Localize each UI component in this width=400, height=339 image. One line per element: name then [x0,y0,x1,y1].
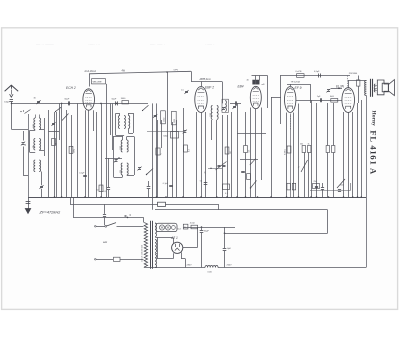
capacitor C n [321,183,324,197]
capacitor C mains [103,204,106,225]
junction [105,157,122,159]
wire [23,131,25,141]
wire [110,103,112,135]
dial lamp 1 [159,225,164,230]
coil L1 pair [34,115,41,130]
coil L4 pair [121,140,128,152]
svg-text:1500: 1500 [210,113,212,117]
svg-text:260V: 260V [227,265,233,267]
trimmer T1 [51,122,55,126]
label L1 [33,124,35,128]
label EL3N [336,84,345,88]
wire [293,113,295,198]
wire [172,122,174,197]
wire [261,108,263,181]
wire [161,120,163,148]
fuse [95,257,144,261]
svg-text:TR 12mA: TR 12mA [291,81,301,84]
junction approx3 [125,213,132,218]
svg-text:Cu-PB: Cu-PB [295,71,302,73]
label ECH 2 [66,86,76,90]
svg-text:250: 250 [314,181,317,183]
svg-text:ZRC6M4: ZRC6M4 [349,73,358,75]
capacitor C J40 [247,80,256,85]
transformer OPT secondary [374,84,377,92]
svg-text:1k: 1k [308,143,310,145]
transformer secondary heat1 [155,240,157,253]
wire [343,112,345,197]
svg-text:0,1μF: 0,1μF [163,183,169,185]
wire [196,112,198,197]
wire [56,112,58,197]
svg-text:··— ·: ··— · [205,42,215,47]
tube EL3N [342,88,355,113]
switch mains [95,223,144,228]
svg-text:110 125 150 220 240: 110 125 150 220 240 [142,245,144,262]
label box WELLENF [92,79,106,84]
dial lamp 3 [172,226,176,230]
potentiometer arrow [62,114,69,121]
wire main bus [11,103,148,105]
wire [155,209,328,211]
wire [176,120,178,197]
capacitor C 50pF [112,98,118,105]
coil L6 [222,99,228,112]
label 2mA 16mA [84,70,97,73]
coil L3 pair [34,160,41,172]
trimmer T6 [181,90,189,94]
wire [59,103,61,140]
capacitor C pad [147,181,151,197]
svg-text:100pF: 100pF [4,102,11,104]
wire [311,100,313,197]
label 260V [227,265,233,267]
capacitor C mB [256,80,265,86]
svg-text:280V: 280V [187,265,193,267]
label 4W [122,71,126,73]
svg-text:FL 4161 A: FL 4161 A [369,130,379,175]
wire [252,76,268,81]
capacitor C diode [241,172,250,180]
svg-text:—· ·— ·: —· ·— · [150,42,165,47]
wire shield dash [347,76,349,88]
wire [89,71,191,86]
wire [173,238,175,259]
switch S4 [146,169,153,176]
switch S3 [142,105,149,111]
capacitor antenna 100pF [4,100,13,104]
resistor R10 6k [330,96,338,102]
svg-text:EL3N: EL3N [336,84,345,88]
trimmer T4 [137,167,141,171]
svg-text:WELLENF.: WELLENF. [93,82,103,84]
trimmer T2 [21,142,27,146]
wire [61,103,63,197]
wire tone frame [310,183,351,191]
wire [216,120,218,197]
wire [181,252,186,267]
wire [48,110,50,197]
label 280V [187,265,193,267]
wire [250,108,252,198]
capacitor C det [230,101,241,105]
capacitor C m [315,187,318,188]
transformer mains primary [144,217,148,267]
label TR 12mA [291,81,301,84]
trimmer antenna [34,98,41,105]
coil IFT1 secondary [128,116,129,129]
wire [66,110,68,197]
svg-text:6kΩ: 6kΩ [330,96,334,98]
wire [88,110,90,197]
svg-text:30: 30 [25,144,27,146]
wire [127,137,135,176]
tube EBF2 [195,87,207,113]
svg-text:MW: MW [33,124,35,128]
trimmer T9 [326,89,330,93]
wire [152,103,154,209]
wire [201,113,203,198]
wire [157,238,174,259]
ground [25,197,31,214]
wire IFT1 frame [116,113,134,136]
wire [310,84,312,103]
resistor R2 1M [69,146,76,153]
label EF 9 [295,86,302,90]
wire [222,115,224,197]
wire osc frame [114,136,123,178]
coil L2 pair [34,139,41,151]
wire coil frame [30,131,36,153]
svg-text:2mA,16mA: 2mA,16mA [84,70,97,73]
transformer secondary HT [155,223,157,237]
svg-text:0,5μF: 0,5μF [314,71,320,73]
capacitor C 8uF [223,227,232,268]
switch S1 [20,110,30,114]
trimmer T8 [232,105,236,109]
wire ground bus [28,197,366,199]
wire [366,96,368,268]
wire [73,197,144,218]
wire [85,110,87,197]
wire [112,103,114,150]
wire [237,103,239,197]
tube EF9 [285,87,296,113]
wire [205,112,207,197]
wire [222,82,224,104]
wire [327,210,329,234]
switch S2 [55,107,61,112]
svg-text:8μF: 8μF [227,248,231,250]
svg-text:ECH 2: ECH 2 [66,86,76,90]
coil L5 pair [121,163,128,175]
svg-text:·—· ···: ·—· ··· [88,42,100,47]
svg-text:0,1μF: 0,1μF [79,172,85,174]
wire [348,113,350,198]
wire [211,120,213,140]
svg-text:25: 25 [205,172,207,174]
junction dots bus [54,196,362,198]
resistor R17 4,5 [190,223,198,229]
svg-text:1500: 1500 [120,146,122,150]
svg-text:60pF: 60pF [65,98,70,100]
capacitor C 60pF [65,98,70,105]
wire [245,112,247,197]
wire [361,100,363,197]
svg-text:EF 9: EF 9 [295,86,302,90]
wire [155,224,157,268]
capacitor pair det [205,162,227,174]
wire [357,103,359,197]
resistor R8 CuPB [295,71,304,77]
wire [183,108,185,197]
meter box Gr [183,224,188,229]
svg-text:AB55,4mA: AB55,4mA [199,78,211,81]
antenna [5,85,19,97]
resistor R 1/4W [156,148,163,155]
svg-text:50kΩ: 50kΩ [163,136,168,138]
page smudge [36,42,215,47]
svg-text:0,3: 0,3 [188,149,190,152]
wire [77,103,79,197]
resistor R9 0,5M [284,146,291,155]
trimmer T7 [221,107,225,111]
capacitor C 30uF [200,227,210,268]
label L4 [120,146,122,150]
coil IFT1 primary pair [118,116,125,129]
dial lamp 2 [165,225,170,230]
wire [23,147,28,176]
capacitor C 1uF [317,96,322,102]
capacitor C 0,1b [163,183,173,187]
transformer core [151,221,153,269]
resistor R14 [332,103,335,197]
resistor R7 0,1 box [223,184,230,195]
wire [156,103,158,197]
svg-text:30μF: 30μF [204,230,210,232]
label AB55 4mA [199,78,211,81]
wire [49,131,60,133]
junction [201,226,203,228]
transformer secondary heat2 [155,255,157,268]
wire [296,100,342,102]
wire coil frame [39,118,44,156]
svg-text:Horny: Horny [370,110,376,126]
label EBF 2 [205,86,214,90]
svg-text:50k: 50k [300,143,303,145]
capacitor C 0,5 [314,71,321,78]
wire [267,76,269,109]
label L5 [120,170,122,173]
wire [11,101,28,129]
junction [61,103,117,105]
trimmer T5 [153,114,157,118]
choke [205,266,218,268]
svg-text:1MΩ: 1MΩ [74,148,76,153]
tube AZ1 [172,242,183,253]
label 6,3 [178,229,182,231]
resistor R16 Gr box [158,202,166,206]
svg-text:2000: 2000 [174,119,176,123]
transformer OPT core [371,79,373,97]
wire [271,97,281,197]
trimmer T10 [39,172,43,198]
capacitor C 0,1 [79,172,87,176]
resistor R3 50 [96,185,103,192]
wire [166,71,168,197]
wire [96,112,98,197]
trimmer T5b [183,130,187,134]
svg-text:ZF=472kHz: ZF=472kHz [39,210,61,215]
wire [218,204,220,210]
wire [93,110,95,131]
wire [255,109,257,198]
label aw [103,240,108,244]
wire [147,131,184,133]
svg-text:LW: LW [33,145,35,148]
label FL 4161 A [369,130,379,175]
wire [331,88,342,90]
dial lamp box [156,223,177,231]
potentiometer volume [250,181,257,189]
label ZRC6M4 [349,73,358,75]
resistor 3000 [121,98,129,104]
resistor R13 [326,103,329,197]
svg-text:EB4: EB4 [238,84,244,88]
label AZ 1 [170,236,178,240]
wire [101,103,103,197]
svg-text:505: 505 [120,170,122,173]
label EB4 [238,84,244,88]
wire [224,232,328,234]
potentiometer P2 [298,160,308,172]
label IFT2a [210,113,212,117]
resistor R 50k box [163,132,178,139]
wire [240,159,258,161]
resistor R12 1k [308,143,311,152]
capacitor C 0,1 osc [104,158,111,197]
label ZF=472kHz [39,210,61,215]
wire [106,84,108,197]
wire bottom bus [144,267,366,269]
resistor R6 0,3 [244,146,251,153]
resistor box 2000 [172,111,177,125]
label voltage taps [142,245,144,262]
wire [280,76,350,125]
wire [298,104,300,198]
svg-text:— ·· ——: — ·· —— [36,42,54,47]
capacitor C 50 [200,181,208,185]
wire [352,112,354,197]
transformer OPT primary [365,80,367,96]
svg-text:50pF: 50pF [112,98,117,100]
label Horny [370,110,376,126]
potentiometer det [250,159,256,165]
resistor R 50k b [287,183,296,190]
wire [304,153,306,198]
wire shield EF9 [290,116,292,131]
wire [237,133,266,135]
trimmer T3 [114,159,118,163]
wire [191,71,222,81]
wire [286,113,288,198]
svg-text:0,5MΩ: 0,5MΩ [284,149,286,155]
wire [308,153,310,198]
tube EB4 [250,86,261,108]
label OPV [174,70,179,72]
wire [70,197,219,205]
wire [183,227,198,248]
resistor R15 250 [313,181,320,189]
coil IFT2a pair [211,106,218,120]
svg-text:EBF 2: EBF 2 [205,86,214,90]
tube ECH2 [83,89,95,110]
resistor R5 1M [225,147,232,154]
speaker [377,80,394,96]
wire [71,115,73,197]
svg-text:OPV: OPV [174,70,179,72]
label 0,65 [208,271,213,273]
svg-text:0,3: 0,3 [248,150,250,153]
wire [227,115,229,197]
svg-text:150Ω: 150Ω [163,117,165,122]
svg-text:4,5Ω: 4,5Ω [190,223,195,225]
wire [316,103,318,197]
resistor R4 0,3 [184,145,191,152]
potentiometer P3 5k [337,179,345,192]
wire [348,80,365,88]
resistor R1 [52,139,58,146]
resistor box 150 [161,111,166,124]
wire [28,114,30,197]
wire [157,120,159,197]
svg-text:5kΩ: 5kΩ [340,184,344,186]
wire [201,82,203,87]
wire [231,112,233,197]
resistor R cathode EL3N [357,76,360,104]
wire [54,112,56,197]
wire [183,227,235,229]
wire [287,84,310,86]
wire [290,114,292,198]
label L2 [33,145,35,148]
resistor R11 50k [300,143,306,152]
